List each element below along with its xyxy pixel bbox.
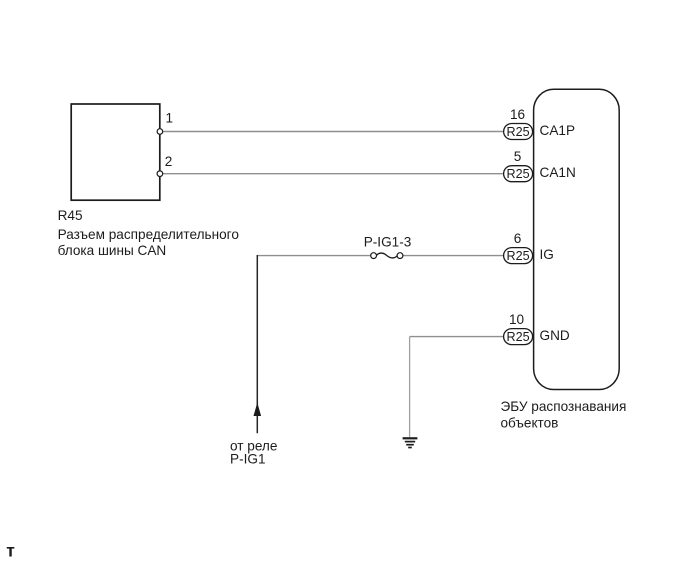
svg-text:блока шины CAN: блока шины CAN — [58, 243, 167, 258]
svg-text:ЭБУ распознавания: ЭБУ распознавания — [501, 399, 627, 414]
pin 10 connector code R25 — [504, 312, 533, 344]
svg-text:т: т — [6, 541, 15, 561]
svg-text:16: 16 — [510, 107, 525, 122]
ground — [403, 438, 418, 447]
svg-text:10: 10 — [509, 312, 525, 327]
pin 5 connector code R25 — [504, 149, 533, 182]
wire IG segment right (fuse to pin6 ECU) — [403, 255, 504, 257]
pin 16 connector code R25 — [504, 107, 533, 139]
svg-text:R25: R25 — [507, 330, 530, 344]
svg-text:2: 2 — [165, 154, 173, 169]
svg-text:R45: R45 — [58, 208, 83, 223]
wire IG segment left (riser to fuse) — [257, 255, 370, 257]
svg-text:1: 1 — [166, 111, 174, 126]
svg-text:R25: R25 — [507, 167, 530, 181]
svg-text:R25: R25 — [507, 249, 530, 263]
label от реле P-IG1 — [230, 439, 277, 467]
connector R45 — [71, 104, 160, 200]
svg-text:объектов: объектов — [501, 415, 559, 430]
label R45 connector caption — [58, 208, 239, 258]
svg-text:P-IG1-3: P-IG1-3 — [364, 234, 412, 249]
wire GND horizontal (pin10 ECU to ground riser) — [410, 336, 504, 338]
svg-text:GND: GND — [540, 328, 570, 343]
svg-text:Разъем распределительного: Разъем распределительного — [58, 227, 239, 242]
ECU U1 (object recognition ECU) — [534, 89, 620, 389]
wire from relay P-IG1 (vertical riser) — [256, 255, 258, 433]
pin 2 of R45 — [157, 171, 163, 177]
wire GND vertical riser — [409, 337, 411, 437]
svg-text:6: 6 — [514, 231, 522, 246]
pin 6 connector code R25 — [504, 231, 533, 263]
svg-text:P-IG1: P-IG1 — [230, 452, 266, 467]
svg-text:CA1N: CA1N — [540, 165, 576, 180]
wire CA1P (pin1 R45 to pin16 ECU) — [160, 131, 504, 133]
svg-text:R25: R25 — [507, 125, 530, 139]
wire CA1N (pin2 R45 to pin5 ECU) — [160, 173, 504, 175]
label ECU caption — [501, 399, 627, 431]
arrow from relay P-IG1 — [254, 403, 262, 417]
svg-text:CA1P: CA1P — [540, 123, 576, 138]
pin 1 of R45 — [157, 129, 163, 135]
fuse P-IG1-3 — [371, 253, 403, 259]
svg-text:IG: IG — [540, 247, 554, 262]
svg-text:5: 5 — [514, 149, 522, 164]
